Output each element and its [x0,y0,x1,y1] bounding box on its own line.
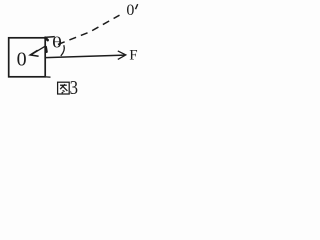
force arrowhead F [118,51,126,60]
angle arc theta [61,45,64,56]
svg-text:0: 0 [17,49,27,71]
leader arrowhead at O [30,50,38,56]
box bottom edge overshoot [45,76,51,78]
dashed line O to O' [58,15,120,44]
vertex smudge at box edge [45,47,48,52]
leader arrow shaft toward O [32,46,45,54]
svg-text:0: 0 [126,2,134,19]
caption: character 图 drawn as strokes [58,82,70,94]
svg-text:θ: θ [52,34,62,52]
svg-text:3: 3 [70,77,78,99]
block (square box) [9,38,46,77]
vertex corner blob [45,38,48,40]
svg-text:F: F [129,47,137,63]
force arrow F shaft [46,55,125,58]
box top edge overshoot [45,36,55,39]
prime tick of O' [136,4,138,9]
